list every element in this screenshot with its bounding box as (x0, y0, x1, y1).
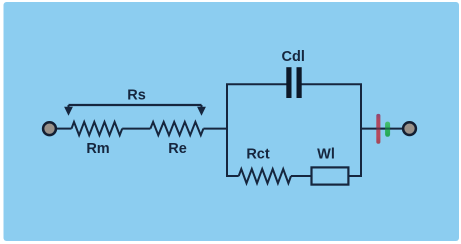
Warburg element Wl (box) (312, 167, 349, 184)
wire right branch vertical at node B (360, 84, 362, 176)
wire left branch vertical at node A (226, 84, 228, 176)
measure arrow Rs (64, 105, 206, 116)
wire Re to node A (203, 128, 228, 130)
resistor Re (150, 122, 203, 135)
wire bottom branch to resistor Rct (226, 175, 239, 177)
svg-text:Cdl: Cdl (282, 49, 305, 65)
wire Wl to node B (348, 175, 362, 177)
wire terminal T1 to resistor Rm (57, 128, 72, 130)
wire top branch right of capacitor Cdl (302, 83, 363, 85)
wire top branch left to capacitor Cdl (226, 83, 287, 85)
resistor Rm (72, 122, 123, 135)
svg-text:Rs: Rs (127, 88, 146, 104)
svg-text:Rm: Rm (86, 141, 109, 157)
electrode green plate (385, 122, 390, 137)
wire crossing electrode plates (376, 128, 391, 130)
resistor Rct (239, 169, 291, 183)
svg-text:Rct: Rct (246, 147, 270, 163)
capacitor Cdl plates (286, 67, 301, 98)
wire node B to terminal T2 (360, 128, 403, 130)
svg-text:Wl: Wl (317, 147, 335, 163)
electrode red plate (376, 114, 380, 144)
wire Rct to Warburg element Wl (291, 175, 312, 177)
svg-text:Re: Re (168, 141, 187, 157)
wire Rm to Re (122, 128, 150, 130)
terminal T1 (43, 122, 56, 135)
terminal T2 (403, 122, 416, 135)
